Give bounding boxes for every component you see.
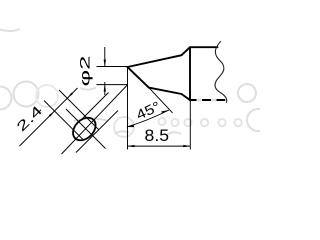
ellipse of 45deg cut face [69, 113, 100, 144]
8.5 dimension line [128, 145, 191, 147]
cone top line + flare + barrel top [128, 47, 218, 67]
break (wavy) line [215, 41, 227, 102]
2.4 extension line 2 [59, 90, 99, 130]
face line thin extension for angle dimension [149, 88, 173, 113]
soldering tip body: main outline [128, 47, 225, 100]
auxiliary face view: centerline to side view [62, 85, 128, 154]
flare vertical weld line [189, 47, 191, 100]
auxiliary view minor centerline [66, 109, 106, 149]
right extension line for 8.5 [189, 101, 191, 150]
tangent line SE of ellipse [76, 111, 118, 153]
watermark ghost shapes [0, 29, 269, 137]
45-degree face line, cone bottom line, flare, barrel bottom [128, 67, 225, 100]
phi2 dimension line with outside arrows [104, 47, 106, 95]
arrow at C1 pointing NE [49, 111, 55, 117]
svg-text:2.4: 2.4 [13, 102, 45, 134]
vertical extension line from apex down to 8.5 dimension [127, 67, 129, 150]
2.4 dimension line [20, 88, 78, 146]
watermark gaps on barrel bottom line [197, 99, 203, 102]
45-degree angle dimension arc [127, 110, 169, 127]
phi2 extension line bottom [97, 84, 128, 86]
tangent line NW of ellipse [81, 93, 109, 121]
svg-text:φ2: φ2 [77, 56, 92, 87]
arrow at C2 pointing SW [67, 93, 73, 99]
2.4 extension line 1 [44, 101, 84, 141]
svg-text:8.5: 8.5 [145, 127, 170, 145]
phi2 extension line top [97, 66, 128, 68]
